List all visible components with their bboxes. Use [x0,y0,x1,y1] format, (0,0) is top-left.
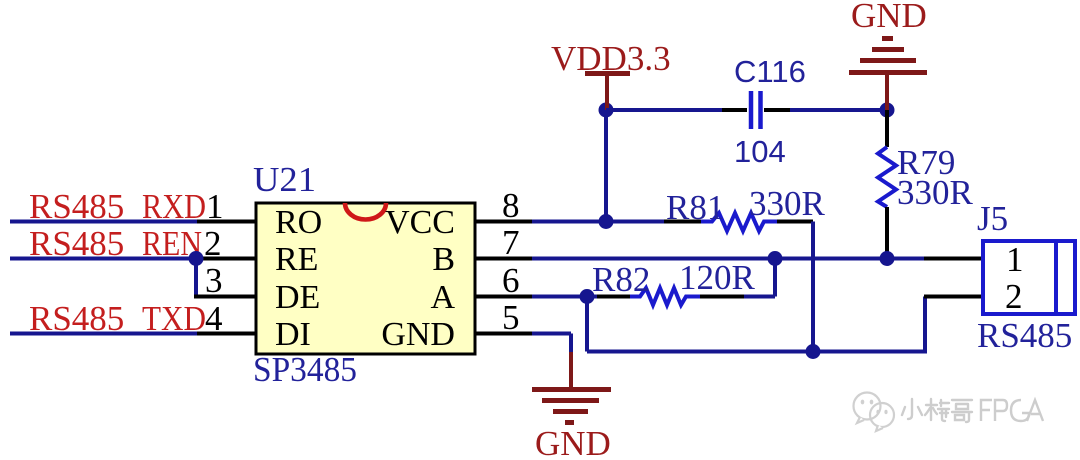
pin 6 stub [475,295,532,299]
wire R81 down to bottom run [811,222,815,352]
wire A line pin6 [532,295,599,299]
svg-text:RS485: RS485 [29,187,124,226]
power symbol VDD3.3 [551,39,671,110]
svg-text:2: 2 [1005,277,1023,316]
pin 3 stub [194,295,256,299]
pin 5 stub [475,332,532,336]
pin 8 stub [475,220,532,224]
svg-text:RS485: RS485 [29,299,124,338]
wire B line pin7 to J5 [532,257,926,261]
svg-text:2: 2 [204,224,222,263]
junction REN/pin3 [189,251,204,266]
wire A node down [585,297,589,352]
ground symbol bottom GND [532,352,611,460]
junction R81/bottom run [806,344,821,359]
watermark text [902,399,972,422]
svg-text:A: A [430,279,455,316]
svg-text:VCC: VCC [385,204,455,241]
svg-text:5: 5 [502,298,520,337]
svg-text:GND: GND [535,424,611,460]
svg-text:B: B [432,241,455,278]
svg-text:RO: RO [275,204,322,241]
pin 1 stub [197,220,256,224]
svg-text:330R: 330R [749,184,826,223]
svg-text:1: 1 [1006,240,1024,279]
ground symbol top GND [849,0,927,110]
wire VDD vertical [604,110,608,222]
svg-text:RE: RE [275,241,318,278]
svg-text:TXD: TXD [142,299,206,338]
watermark logo [854,393,895,432]
resistor R82 horizontal [597,288,744,305]
svg-text:330R: 330R [897,173,974,212]
svg-text:8: 8 [502,186,520,225]
capacitor C116 plates [749,91,754,129]
J5 pin 1 stub [924,257,982,261]
svg-text:120R: 120R [679,258,756,297]
svg-text:R81: R81 [666,188,724,227]
junction VDD node [599,103,614,118]
wire REN junction down to pin 3 [194,259,198,297]
junction A node [580,289,595,304]
svg-text:GND: GND [851,0,927,35]
wire VDD node to C116 [606,108,722,112]
resistor R79 vertical [878,110,896,259]
svg-text:RS485: RS485 [977,316,1072,355]
wire pin5 to ground [532,332,571,336]
wire R82 right up to B [744,295,775,299]
resistor R81 horizontal [664,213,813,231]
wire RS485_RXD to pin 1 [10,220,199,224]
J5 pin 2 stub [924,295,982,299]
junction top GND node [880,103,895,118]
svg-text:4: 4 [205,299,223,338]
svg-text:J5: J5 [977,199,1008,238]
svg-text:104: 104 [734,134,786,169]
svg-text:6: 6 [502,261,520,300]
IC notch arc [345,203,386,220]
junction pin8/VDD [599,214,614,229]
svg-text:R82: R82 [592,260,650,299]
wire C116 to GND node [790,108,887,112]
svg-text:3: 3 [205,261,223,300]
wire RS485_TXD to pin 4 [10,332,199,336]
junction B/R82 [768,251,783,266]
svg-text:DE: DE [275,279,320,316]
op-amp U1: IC U21 SP3485 body [256,203,475,354]
capacitor C3: C116 pins [722,108,747,112]
wire RS485_REN to pin 2 [10,257,196,261]
connector J5 [983,240,1075,316]
svg-text:RXD: RXD [142,187,206,226]
svg-text:U21: U21 [253,160,316,199]
pin 2 stub [196,257,256,261]
wire pin8 to VDD node [532,220,664,224]
pin 7 stub [475,257,532,261]
svg-text:DI: DI [275,316,311,353]
svg-text:7: 7 [502,223,520,262]
svg-text:RS485: RS485 [29,224,124,263]
junction B/R79 [880,251,895,266]
wire bottom run [587,297,925,352]
svg-text:SP3485: SP3485 [253,350,357,389]
pin 4 stub [197,332,256,336]
svg-text:C116: C116 [734,54,806,89]
svg-text:1: 1 [206,187,224,226]
svg-text:GND: GND [381,316,455,353]
